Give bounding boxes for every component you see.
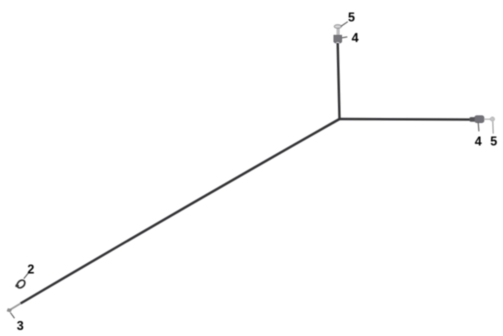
leader line label 3: [10, 313, 14, 319]
cable end fitting item 3 tip blob: [7, 309, 12, 313]
leader line label 5 (right): [492, 121, 494, 133]
washer disc item 5 (top): [334, 25, 341, 29]
svg-text:5: 5: [348, 10, 355, 24]
svg-text:5: 5: [490, 134, 497, 148]
svg-text:2: 2: [27, 262, 34, 276]
leader line label 2: [24, 273, 28, 279]
svg-text:3: 3: [17, 319, 24, 333]
clip item 2 dark foot: [15, 284, 19, 288]
grommet item 4 (top square): [334, 35, 342, 42]
connector item 4 (right): [475, 116, 484, 123]
ferrule on right cable end: [470, 117, 476, 122]
svg-text:4: 4: [475, 134, 482, 148]
wire horizontal cable (junction to right connector): [340, 118, 472, 121]
stem above top grommet: [337, 28, 339, 37]
leader line label 4 (top): [342, 37, 348, 38]
clip loop item 2: [16, 279, 27, 290]
ball item 5 (right): [490, 117, 494, 121]
leader line label 5 (top): [341, 22, 348, 27]
grommet legs: [334, 42, 336, 44]
svg-text:4: 4: [352, 31, 359, 45]
leader line label 4 (right): [477, 122, 480, 131]
wire main diagonal cable (junction to lower-left tip): [21, 119, 340, 304]
stem to ball item 5 (right): [484, 118, 491, 120]
wire cable tip sheath end (lower-left): [10, 304, 21, 310]
wire vertical cable (junction up to item 4 grommet): [338, 43, 340, 119]
